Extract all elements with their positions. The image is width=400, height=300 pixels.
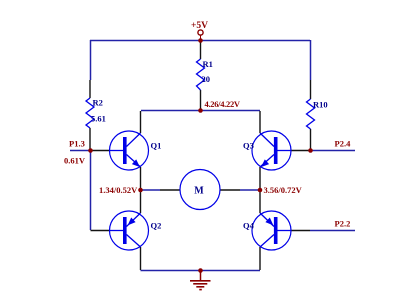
node: +5V junction <box>198 38 203 43</box>
transistor Q2 (PNP-style arrow, base left) <box>91 190 162 270</box>
ground <box>190 270 211 290</box>
wire: top +5V rail <box>90 40 310 42</box>
svg-text:P2.4: P2.4 <box>335 139 352 149</box>
svg-text:Q4: Q4 <box>243 221 255 231</box>
svg-text:P1.3: P1.3 <box>69 139 85 149</box>
wire: bottom ground rail <box>141 270 261 272</box>
resistor R10 <box>307 80 328 150</box>
svg-text:R2: R2 <box>93 98 103 108</box>
node: motor left junction <box>138 188 143 193</box>
node: 4.26/4.22V junction <box>198 108 203 113</box>
svg-text:Q1: Q1 <box>151 141 162 151</box>
wire: P2.2 port stub <box>310 230 355 232</box>
wire: node rail 4.26V between Q1 and Q3 collectors <box>141 110 260 112</box>
wire: P1.3 port stub <box>70 150 90 152</box>
resistor R1 <box>197 40 213 110</box>
svg-text:0.61V: 0.61V <box>64 156 86 166</box>
node: P2.4 junction <box>308 148 313 153</box>
svg-text:4.26/4.22V: 4.26/4.22V <box>205 99 241 109</box>
node: ground junction <box>198 268 203 273</box>
svg-text:Q3: Q3 <box>243 141 254 151</box>
resistor R2 <box>86 80 106 150</box>
svg-text:R1: R1 <box>203 59 213 69</box>
power +5V symbol <box>191 21 208 40</box>
node: P1.3 junction <box>88 148 93 153</box>
svg-text:R10: R10 <box>313 100 328 110</box>
motor M <box>160 170 240 210</box>
wire: P2.4 port stub <box>310 150 355 152</box>
svg-text:3.56/0.72V: 3.56/0.72V <box>264 185 303 195</box>
wire: left drop from top rail to R2 <box>90 40 92 80</box>
svg-text:M: M <box>194 186 204 197</box>
svg-text:+5V: +5V <box>191 21 208 31</box>
wire: left base drop P1.3 to Q2 base <box>90 151 92 231</box>
svg-text:1.34/0.52V: 1.34/0.52V <box>99 185 138 195</box>
wire: right drop from top rail to R10 <box>310 40 312 80</box>
transistor Q4 (PNP-style arrow, base right) <box>243 190 310 270</box>
svg-text:Q2: Q2 <box>151 221 162 231</box>
node: motor right junction <box>258 188 263 193</box>
wire: motor left net <box>141 189 161 191</box>
wire: motor right net <box>240 189 260 191</box>
transistor Q3 (NPN mirrored, base right) <box>243 111 310 190</box>
svg-text:5.61: 5.61 <box>91 114 106 124</box>
svg-text:P2.2: P2.2 <box>335 219 351 229</box>
svg-text:20: 20 <box>202 74 211 84</box>
transistor Q1 (NPN, base left) <box>91 111 162 190</box>
